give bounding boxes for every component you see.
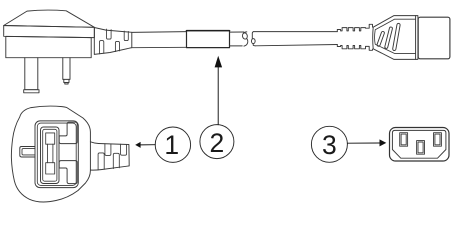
C13 face left slot: [400, 133, 408, 147]
C13 face right slot: [434, 133, 442, 147]
cable break squiggle right: [251, 32, 255, 46]
C13 body end line: [415, 16, 417, 60]
bottom grip bottom slot a: [98, 153, 104, 170]
cable right of ferrite: bottom line: [230, 45, 243, 47]
bottom view: earth pin tab inner: [22, 149, 35, 155]
C13 face cap (side view): [418, 17, 450, 59]
bottom view: fuse carrier inner line: [43, 129, 57, 181]
UK plug bottom view: outer body: [11, 106, 90, 202]
UK mains plug: line pin tip: [64, 79, 69, 84]
UK mains plug side view: flange band: [4, 26, 95, 38]
C13 grip slot 1: [377, 31, 385, 47]
arrow 1 line: [141, 144, 155, 146]
callout circle 3: [311, 126, 347, 162]
fuse bottom cap: [46, 163, 55, 174]
arrow 2 head: [215, 56, 223, 68]
fuse body lines: [48, 144, 53, 163]
cable segment to C13: top line: [254, 31, 338, 33]
bottom view: live pin cutout (top): [59, 122, 77, 143]
bottom view: earth pin tab outer: [20, 147, 35, 158]
svg-text:2: 2: [210, 128, 225, 158]
bottom grip top slot b: [121, 144, 127, 155]
C13 body inner contour: [375, 19, 416, 53]
arrow 3 line: [348, 142, 381, 144]
bottom grip bottom slot b: [113, 153, 119, 168]
ferrite sleeve on cable (item 2): [187, 31, 230, 48]
C13 strain relief accordion: [337, 24, 372, 50]
bottom view: raised plateau inner line: [37, 123, 76, 185]
fuse top cap: [46, 133, 55, 144]
cord grip bottom slot a: [100, 41, 104, 54]
arrow 3 head: [380, 139, 387, 146]
UK mains plug: earth pin foot: [24, 90, 39, 93]
UK mains plug: earth pin shaft: [25, 58, 38, 90]
bottom view: raised plateau outer: [35, 121, 78, 188]
UK plug cord grip (side view): [94, 28, 132, 55]
ferrite sleeve top edge emphasis: [187, 30, 230, 32]
bottom view: neutral pin cutout (bottom): [59, 161, 77, 184]
cable segment from plug to ferrite: bottom line: [132, 46, 187, 48]
bottom view: cord grip: [90, 142, 129, 170]
svg-text:3: 3: [322, 130, 337, 160]
UK mains plug side view: cap: [4, 10, 95, 27]
svg-text:1: 1: [164, 130, 179, 160]
C13 molded body: [373, 16, 418, 60]
C13 grip slot 3: [392, 23, 400, 51]
C13 face inner outline: [392, 130, 446, 158]
callout circle 1: [155, 127, 190, 162]
cord grip top slot a: [107, 29, 112, 39]
callout circle 2: [200, 125, 234, 159]
cable break squiggle left: [242, 32, 248, 46]
arrow 1 head: [135, 142, 140, 148]
C13 face center slot: [417, 141, 425, 155]
C13 grip slot 2: [384, 27, 392, 49]
bottom grip top slot a: [105, 144, 111, 156]
cord grip bottom slot b: [115, 41, 119, 51]
cord grip top slot b: [124, 31, 128, 40]
cable right of ferrite: top line: [230, 31, 244, 33]
cable segment from plug to ferrite: top line: [132, 31, 187, 34]
bottom view: fuse carrier outer: [41, 127, 60, 184]
UK mains plug side view: body: [6, 36, 91, 57]
arrow 2 line: [217, 67, 219, 125]
cable segment to C13: bottom line: [256, 45, 338, 46]
C13 connector face (item 3): outer shell: [390, 128, 450, 162]
UK mains plug: line pin shaft: [63, 58, 70, 80]
